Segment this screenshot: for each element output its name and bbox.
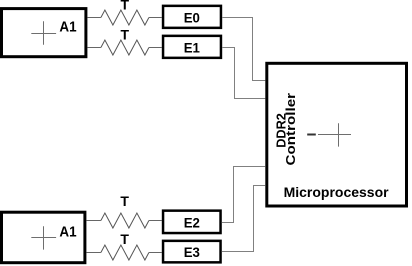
wire E0 to microprocessor (222, 18, 265, 81)
pin box E3 (163, 241, 221, 263)
svg-text:T: T (120, 231, 129, 247)
resistor T (R2, E1 line) (101, 40, 149, 55)
resistor T (R4, E3 line) (101, 245, 149, 260)
svg-text:T: T (121, 0, 130, 13)
wire A1 to R1 (87, 17, 101, 19)
svg-text:E1: E1 (184, 40, 200, 56)
wire A1 to R4 (86, 252, 101, 254)
wire E1 to microprocessor (222, 48, 265, 99)
svg-text:A1: A1 (59, 18, 76, 35)
origin cross of top A1 (31, 21, 56, 45)
wire R2 to E1 (149, 47, 162, 49)
wire A1 to R2 (87, 47, 101, 49)
svg-text:E0: E0 (184, 10, 200, 26)
microprocessor block U1 (267, 63, 407, 206)
wire E2 to microprocessor (222, 167, 265, 223)
pin box E2 (163, 211, 221, 233)
wire A1 to R3 (86, 220, 101, 222)
svg-text:E3: E3 (184, 244, 200, 260)
svg-text:T: T (120, 193, 129, 209)
wire R1 to E0 (149, 17, 162, 19)
svg-text:E2: E2 (184, 214, 200, 230)
svg-text:A1: A1 (59, 224, 76, 241)
origin cross of microprocessor (307, 123, 351, 146)
svg-text:Microprocessor: Microprocessor (284, 184, 390, 200)
origin cross of bottom A1 (31, 226, 56, 249)
pin box E1 (163, 36, 221, 58)
svg-text:Controller: Controller (283, 93, 298, 166)
svg-text:T: T (121, 27, 130, 43)
resistor T (R1, E0 line) (101, 10, 149, 25)
block A1 (top DDR2 memory device) (2, 9, 86, 57)
pin box E0 (163, 6, 221, 28)
block A1 (bottom DDR2 memory device) (2, 212, 85, 263)
wire E3 to microprocessor (222, 186, 265, 252)
wire R3 to E2 (149, 220, 162, 222)
resistor T (R3, E2 line) (101, 213, 149, 228)
wire R4 to E3 (149, 252, 162, 254)
